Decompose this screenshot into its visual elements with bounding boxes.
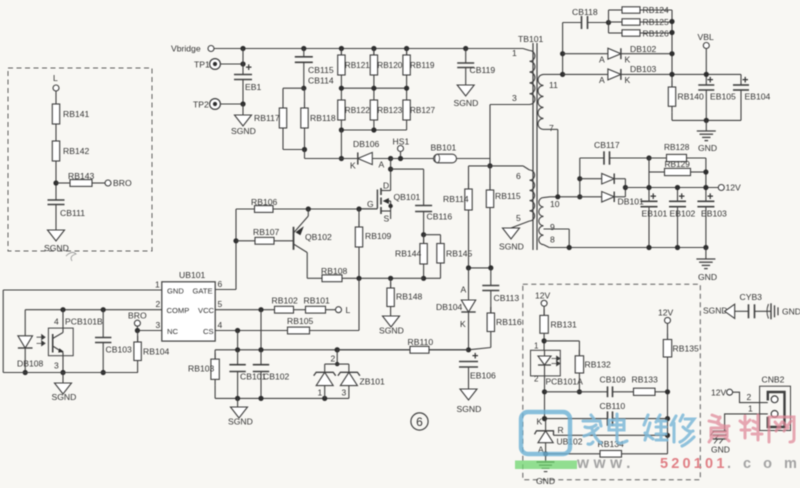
svg-text:CB115: CB115 (308, 65, 334, 75)
zener diode ZB101 right (338, 372, 385, 398)
zener diode ZB101 left (314, 372, 336, 398)
wire (55, 130, 57, 135)
figure number 6 (411, 413, 428, 430)
svg-text:RB133: RB133 (632, 375, 658, 385)
svg-text:5: 5 (218, 299, 223, 309)
junction (371, 86, 376, 91)
svg-text:R: R (558, 425, 564, 435)
pin 1 label (748, 404, 753, 414)
resistor RB108 (307, 266, 359, 282)
wire Vbridge rail (214, 48, 523, 50)
svg-text:L: L (53, 73, 58, 83)
dashed enclosure (line-sense divider network) (8, 68, 152, 251)
diode DB104 (436, 268, 476, 350)
ground SGND (231, 115, 256, 136)
ground GND (696, 259, 717, 282)
svg-text:SGND: SGND (457, 404, 482, 414)
junction (339, 127, 344, 132)
node BRO terminal (105, 178, 132, 188)
svg-text:TB101: TB101 (518, 34, 544, 44)
resistor RB128 (649, 142, 706, 162)
capacitor EB106 (electrolytic) (459, 351, 496, 390)
wire (283, 134, 305, 150)
wire pin3 NC row (135, 328, 162, 333)
svg-text:4: 4 (54, 317, 59, 327)
connector CNB2 (760, 375, 791, 431)
svg-text:BRO: BRO (113, 178, 132, 188)
svg-text:CYB3: CYB3 (740, 292, 763, 302)
svg-text:1: 1 (748, 404, 753, 414)
svg-text:TP1: TP1 (194, 60, 210, 70)
wire bottom bus (341, 126, 406, 130)
svg-text:RB127: RB127 (410, 106, 435, 115)
junction (463, 46, 468, 51)
svg-text:D: D (383, 181, 389, 191)
wire gate row (236, 208, 255, 210)
ground SGND (52, 373, 77, 403)
resistor RB102 (272, 296, 306, 314)
svg-text:RB119: RB119 (410, 61, 435, 70)
svg-text:EB1: EB1 (245, 82, 261, 92)
svg-text:K: K (625, 55, 631, 65)
svg-text:S: S (384, 214, 390, 224)
optocoupler PCB101A (LED side) (531, 342, 584, 419)
svg-text:EB103: EB103 (701, 209, 727, 219)
svg-text:GND: GND (711, 445, 730, 455)
svg-text:RB123: RB123 (377, 106, 402, 115)
svg-text:6: 6 (218, 279, 223, 289)
resistor RB119 (403, 49, 435, 82)
wire (391, 158, 434, 160)
capacitor CB117 (580, 140, 649, 165)
svg-text:EB106: EB106 (470, 371, 496, 381)
junction (306, 206, 311, 211)
svg-text:NC: NC (167, 327, 178, 336)
pencil mark (66, 252, 76, 261)
resistor RB101 (304, 296, 336, 314)
svg-text:RB104: RB104 (143, 347, 169, 357)
junction (371, 127, 376, 132)
svg-text:CB102: CB102 (263, 372, 289, 382)
svg-text:RB102: RB102 (272, 296, 298, 306)
wire drain row to CB116 (391, 168, 424, 170)
pin 2 label (747, 392, 752, 402)
resistor RB126 (609, 29, 673, 39)
wire secondary return row (549, 245, 708, 259)
resistor RB122 (338, 94, 371, 126)
svg-text:RB121: RB121 (345, 61, 370, 70)
svg-text:G: G (367, 199, 374, 209)
svg-text:6: 6 (416, 415, 423, 429)
svg-text:2: 2 (534, 375, 539, 384)
svg-text:SGND: SGND (454, 98, 479, 108)
ground SGND (side) (703, 304, 735, 318)
wire right bus (669, 10, 674, 87)
junction (356, 206, 361, 211)
node L terminal (336, 305, 351, 315)
resistor RB123 (370, 94, 403, 126)
svg-text:RB107: RB107 (253, 227, 279, 237)
wire (466, 265, 494, 270)
resistor RB104 (134, 331, 170, 373)
dashed enclosure (secondary feedback) (523, 284, 701, 480)
resistor RB109 (355, 209, 391, 278)
resistor RB103 (188, 350, 219, 399)
svg-text:DB108: DB108 (17, 359, 43, 369)
svg-text:+: + (246, 62, 252, 74)
node L terminal (53, 73, 59, 98)
wire pin5 VCC row (215, 307, 274, 312)
svg-text:1: 1 (155, 280, 160, 290)
svg-text:RB141: RB141 (63, 109, 89, 119)
wire (544, 340, 579, 342)
svg-text:RB148: RB148 (396, 292, 422, 302)
capacitor EB103 (electrolytic) (697, 191, 727, 248)
junction (240, 46, 245, 51)
svg-text:PCB101B: PCB101B (65, 317, 103, 327)
svg-text:5: 5 (516, 213, 521, 223)
svg-text:8: 8 (550, 235, 555, 245)
svg-text:www.: www. (576, 455, 635, 472)
svg-text:CS: CS (203, 327, 214, 336)
svg-text:QB102: QB102 (305, 232, 332, 242)
wire (725, 414, 768, 431)
capacitor CB119 (457, 49, 495, 86)
svg-text:CB117: CB117 (594, 140, 620, 150)
svg-text:RB118: RB118 (310, 113, 336, 123)
junction (302, 147, 307, 159)
wire (339, 130, 344, 161)
resistor RB121 (338, 49, 371, 82)
junction (606, 20, 611, 25)
wire (424, 235, 441, 238)
wire RB124-126 left bus (608, 10, 610, 33)
ground GND (536, 454, 555, 486)
watermark characters (583, 414, 794, 446)
svg-text:2: 2 (331, 354, 336, 364)
svg-text:UB101: UB101 (179, 270, 205, 280)
wire EB101 column (646, 158, 651, 201)
svg-text:VBL: VBL (698, 32, 714, 42)
transformer TB101 core (518, 34, 544, 250)
svg-text:CB103: CB103 (106, 345, 132, 355)
junction (404, 86, 409, 91)
svg-text:CB114: CB114 (308, 76, 334, 86)
junction (543, 451, 548, 456)
wire drain column (388, 159, 393, 191)
wire (221, 49, 246, 75)
svg-text:RB142: RB142 (63, 146, 89, 156)
capacitor CYB3 (735, 292, 771, 318)
svg-text:CB109: CB109 (600, 375, 626, 385)
svg-text:GND: GND (698, 143, 717, 153)
svg-text:CB118: CB118 (572, 7, 598, 17)
wire pin10 row (550, 194, 580, 199)
resistor RB105 (287, 278, 359, 334)
wire (421, 269, 441, 281)
svg-text:RB135: RB135 (673, 344, 699, 354)
svg-text:K: K (537, 417, 543, 427)
resistor RB143 (56, 171, 105, 186)
svg-text:12V: 12V (711, 388, 727, 398)
svg-text:L: L (346, 305, 351, 315)
resistor RB116 (469, 307, 522, 350)
wire bottom row (215, 396, 349, 401)
svg-text:3: 3 (156, 320, 161, 330)
ground SGND (457, 389, 482, 414)
svg-text:11: 11 (549, 80, 558, 90)
svg-text:RB131: RB131 (551, 320, 577, 330)
resistor RB106 (251, 197, 377, 212)
svg-text:RB101: RB101 (304, 296, 330, 306)
svg-text:3: 3 (512, 93, 517, 103)
svg-text:BB101: BB101 (431, 143, 457, 153)
svg-text:RB114: RB114 (443, 194, 469, 204)
wire (283, 88, 304, 102)
ground GND (chassis) (711, 431, 730, 455)
resistor RB131 (540, 309, 577, 350)
wire pin6 GATE (215, 289, 236, 291)
junction (542, 389, 547, 394)
svg-text:RB117: RB117 (254, 113, 280, 123)
wire (237, 331, 239, 350)
junction (646, 155, 651, 160)
capacitor CB113 (482, 268, 519, 313)
svg-text:RB132: RB132 (585, 360, 611, 370)
svg-text:SGND: SGND (703, 306, 728, 316)
svg-text:12V: 12V (658, 308, 674, 318)
resistor RB129 (649, 159, 706, 176)
capacitor EB104 (electrolytic) (733, 74, 771, 120)
junction (371, 46, 376, 51)
svg-text:SGND: SGND (228, 417, 253, 427)
resistor RB114 (443, 166, 472, 268)
svg-text:RB120: RB120 (377, 61, 402, 70)
resistor RB134 (546, 435, 668, 457)
svg-text:RB122: RB122 (345, 106, 370, 115)
svg-text:CB110: CB110 (600, 401, 626, 411)
svg-text:. c o m: . c o m (727, 456, 800, 472)
svg-text:SGND: SGND (379, 326, 404, 336)
svg-text:CB113: CB113 (494, 293, 520, 303)
ground SGND (454, 85, 479, 108)
svg-text:CB119: CB119 (470, 65, 496, 75)
diode DB101 lower (580, 192, 644, 207)
highlight marker (515, 461, 577, 470)
wire 12V row (625, 187, 718, 189)
svg-text:RB129: RB129 (665, 159, 691, 169)
capacitor CB116 (415, 169, 452, 235)
wire CB117 left vertical (577, 158, 582, 199)
resistor RB135 (663, 334, 699, 436)
diode DB108 (17, 336, 43, 375)
junction (339, 86, 344, 91)
junction (301, 86, 306, 91)
inductor BB101 (bead) (431, 143, 491, 163)
svg-text:DB102: DB102 (630, 44, 656, 54)
capacitor EB101 (electrolytic) (641, 191, 668, 248)
capacitor CB111 (48, 200, 86, 230)
node Vbridge terminal (171, 44, 214, 54)
svg-text:DB101: DB101 (618, 197, 644, 207)
wire pin11 vertical (560, 23, 565, 78)
svg-text:DB106: DB106 (353, 139, 379, 149)
svg-text:A: A (461, 285, 467, 295)
wire (233, 209, 238, 290)
wire CB109 row (545, 391, 602, 393)
svg-text:4: 4 (218, 320, 223, 330)
ground GND (697, 131, 717, 153)
wire (221, 101, 246, 115)
svg-text:EB104: EB104 (745, 92, 771, 102)
wire (703, 158, 708, 201)
capacitor EB102 (electrolytic) (669, 185, 696, 248)
shunt regulator UB102 (535, 417, 583, 455)
node TP2 terminal (193, 99, 220, 110)
svg-text:2: 2 (747, 392, 752, 402)
svg-text:RB103: RB103 (188, 364, 214, 374)
node TP1 terminal (194, 59, 220, 70)
capacitor CB101 (229, 350, 266, 399)
wire bottom row (3, 372, 138, 374)
svg-text:K: K (350, 161, 356, 171)
svg-text:RB110: RB110 (408, 337, 434, 347)
svg-text:2: 2 (156, 299, 161, 309)
watermark url (576, 455, 800, 472)
wire mid bus (341, 81, 406, 94)
resistor RB118 (301, 88, 336, 149)
junction (60, 370, 65, 375)
winding primary pin1-pin3 (490, 48, 535, 166)
svg-text:1: 1 (534, 342, 539, 351)
resistor RB148 (387, 278, 423, 316)
wire K row (542, 416, 601, 421)
node BRO terminal (128, 311, 147, 331)
svg-text:DB103: DB103 (630, 64, 656, 74)
wire source row (356, 276, 423, 281)
resistor RB125 (609, 17, 673, 27)
transistor QB102 (PNP) (294, 209, 332, 278)
svg-text:GND: GND (698, 272, 717, 282)
svg-text:TP2: TP2 (193, 100, 209, 110)
junction (542, 338, 547, 343)
svg-text:EB101: EB101 (642, 209, 668, 219)
svg-text:BRO: BRO (128, 311, 147, 321)
svg-text:CB116: CB116 (427, 212, 453, 222)
resistor RB144 (395, 235, 427, 270)
wire pin2 COMP row (25, 307, 162, 336)
junction (577, 389, 582, 394)
node 12V terminal (658, 308, 674, 340)
capacitor CB110 (600, 401, 668, 426)
resistor RB127 (403, 94, 436, 126)
svg-text:9: 9 (550, 222, 555, 232)
resistor RB141 (52, 98, 89, 130)
svg-text:EB102: EB102 (670, 209, 696, 219)
diode DB103 (563, 64, 741, 85)
svg-text:3: 3 (54, 361, 59, 371)
wire DB101 cathode tie (623, 179, 628, 197)
svg-text:K: K (460, 319, 466, 329)
svg-text:520101: 520101 (660, 456, 728, 472)
junction (466, 347, 471, 352)
svg-text:GND: GND (782, 307, 800, 317)
wire pin4 CS row (215, 328, 287, 333)
junction (339, 46, 344, 51)
watermark photo icon (521, 412, 570, 454)
svg-text:7: 7 (549, 123, 554, 133)
resistor RB124 (609, 5, 673, 15)
svg-text:A: A (599, 55, 605, 65)
svg-text:RB144: RB144 (395, 249, 421, 259)
wire (305, 158, 358, 160)
ground SGND (499, 228, 524, 252)
wire (672, 112, 741, 131)
wire CS filter row (215, 347, 468, 352)
node HS1 terminal (393, 137, 410, 162)
node 12V terminal (535, 291, 551, 316)
junction (404, 46, 409, 51)
capacitor EB1 (electrolytic) (234, 62, 261, 104)
svg-text:K: K (625, 75, 631, 85)
winding auxiliary pin6-pin5 (511, 166, 535, 228)
svg-text:PCB101A: PCB101A (546, 377, 584, 387)
wire (260, 310, 262, 350)
node 12V terminal (718, 183, 741, 193)
svg-text:RB140: RB140 (678, 92, 704, 102)
wire (53, 167, 58, 200)
optocoupler PCB101B (transistor side) (37, 310, 104, 373)
transistor QB101 (MOSFET) (359, 181, 420, 224)
svg-text:SGND: SGND (231, 126, 256, 136)
svg-text:RB115: RB115 (495, 191, 521, 201)
svg-text:EB105: EB105 (710, 92, 736, 102)
svg-text:1: 1 (512, 48, 517, 58)
svg-text:CB111: CB111 (60, 208, 85, 218)
diode DB101 upper (580, 173, 626, 184)
diode DB102 (563, 44, 675, 65)
op-amp U1 IC UB101 (155, 270, 223, 341)
svg-text:COMP: COMP (167, 306, 190, 315)
resistor RB132 (575, 341, 611, 392)
svg-text:CNB2: CNB2 (762, 375, 785, 385)
svg-text:A: A (599, 75, 605, 85)
diode DB106 (350, 139, 391, 171)
resistor RB115 (486, 166, 521, 268)
svg-text:12V: 12V (726, 183, 742, 193)
capacitor CB109 (600, 375, 634, 398)
wire R row (554, 433, 671, 438)
svg-text:10: 10 (550, 199, 560, 209)
svg-text:RB128: RB128 (664, 142, 690, 152)
svg-text:GND: GND (536, 476, 555, 486)
svg-text:RB105: RB105 (287, 316, 313, 326)
svg-text:GND: GND (167, 287, 184, 296)
svg-text:DB104: DB104 (436, 302, 462, 312)
resistor RB117 (254, 102, 287, 134)
ground GND (side) (767, 303, 800, 319)
capacitor CB103 (95, 310, 132, 375)
svg-text:GATE: GATE (193, 287, 213, 296)
junction (487, 163, 492, 168)
svg-text:Vbridge: Vbridge (171, 44, 201, 54)
resistor RB110 (337, 337, 468, 353)
svg-text:3: 3 (342, 388, 347, 398)
junction (301, 46, 306, 51)
junction (421, 232, 426, 237)
svg-text:RB109: RB109 (365, 231, 391, 241)
svg-text:ZB101: ZB101 (360, 377, 386, 387)
